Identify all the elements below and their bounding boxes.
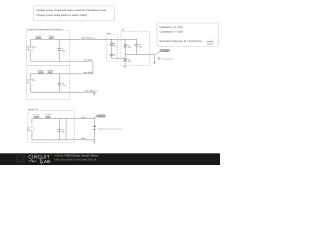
- wire: output stub + flag link: [155, 52, 160, 63]
- svg-text:Wire (Pickup +): Wire (Pickup +): [82, 37, 95, 40]
- resistor R6: [45, 113, 51, 118]
- voltage source V1 (coil EMF): [26, 45, 36, 51]
- ground (single coil): [93, 142, 96, 144]
- svg-text:L3 2.2H: L3 2.2H: [34, 113, 41, 116]
- wire: output tap horizontal: [125, 54, 154, 56]
- capacitor C1: [57, 39, 65, 61]
- capacitor C2: [58, 74, 66, 92]
- wire: vol vertical top: [124, 39, 126, 43]
- node junction output tap: [125, 54, 126, 55]
- potentiometer R4 (volume upper): [123, 44, 132, 49]
- inductor L1: [35, 34, 42, 39]
- svg-text:Change pickup component values: Change pickup component values based on …: [36, 9, 107, 12]
- svg-text:L1 4.4H: L1 4.4H: [35, 34, 42, 37]
- wire: loop1 left lower: [30, 51, 32, 62]
- svg-text:Wire +: Wire +: [81, 116, 87, 119]
- ground (volume): [124, 66, 127, 68]
- wire: loop2 left lower: [30, 84, 32, 92]
- wire: tone to volume horizontal: [112, 57, 126, 59]
- svg-text:250k: 250k: [128, 46, 132, 49]
- note box top-right: [157, 23, 219, 47]
- wire: loop2 bottom / Wire (Pickup -): [31, 92, 95, 93]
- svg-text:R1 8.6k: R1 8.6k: [49, 34, 55, 37]
- wire: mid join vertical: [92, 62, 94, 74]
- ground (output): [153, 63, 156, 65]
- svg-text:L2 4.4H: L2 4.4H: [38, 69, 45, 72]
- svg-text:110p: 110p: [62, 50, 66, 53]
- dashed group box B (humbucker coil 2): [27, 66, 70, 100]
- wire: vol vertical bottom to ground: [124, 62, 126, 66]
- node junction vol top: [125, 39, 126, 40]
- dashed group box Volume: [121, 29, 149, 66]
- inductor L2: [38, 69, 45, 74]
- wire: tone box vertical top: [111, 39, 113, 42]
- wire: loop3 bottom / Wire -: [32, 139, 94, 141]
- wire: loop3 left lower: [31, 131, 33, 140]
- svg-text:220p: 220p: [139, 45, 143, 48]
- node junction C4 top: [136, 39, 137, 40]
- footer logo waveform: [28, 160, 36, 163]
- voltage source V2 (coil EMF): [26, 79, 36, 85]
- net flag single coil +: [94, 115, 106, 119]
- svg-text:R6 6.4k: R6 6.4k: [45, 113, 51, 116]
- svg-text:Inductance = X (mH): Inductance = X (mH): [160, 26, 183, 29]
- svg-text:Wire (Pickup -): Wire (Pickup -): [85, 90, 98, 93]
- net flag Vout: [159, 49, 170, 52]
- inductor L3: [34, 113, 41, 118]
- potentiometer R3 (tone): [109, 42, 117, 48]
- jumper SW: [93, 126, 96, 130]
- node junction single coil -: [94, 139, 95, 140]
- wire: loop1 bottom / Wire (Mid) upper: [31, 61, 93, 63]
- wire: loop1 top / Wire (Pickup +): [31, 39, 126, 45]
- node junction tone tap: [111, 39, 112, 40]
- svg-text:Capacitance = Y (pF): Capacitance = Y (pF): [160, 31, 184, 34]
- svg-text:R2 8.6k: R2 8.6k: [47, 69, 53, 72]
- wire: loop3 top / Wire +: [32, 118, 94, 124]
- svg-text:Resonant Frequency, fo = 1/(2π: Resonant Frequency, fo = 1/(2π√(LC)): [160, 40, 203, 43]
- wire: loop3 right inner vertical: [65, 118, 67, 139]
- svg-text:C3: C3: [114, 54, 116, 57]
- resistor R1: [49, 34, 55, 39]
- svg-text:Wire (Mid): Wire (Mid): [84, 71, 93, 74]
- dashed group box Tone: [106, 32, 117, 61]
- wire: tone box vertical mid: [111, 46, 113, 54]
- wire: vol vertical mid: [124, 48, 126, 58]
- wire: vol top branch: [125, 38, 136, 40]
- wire: tone box vertical bottom: [111, 56, 113, 58]
- svg-text:95p: 95p: [62, 131, 65, 134]
- dashed group box A (humbucker coil 1): [27, 28, 70, 66]
- potentiometer R5 (volume lower): [123, 58, 132, 63]
- dashed group box single coil: [28, 108, 75, 142]
- svg-text:110p: 110p: [62, 84, 66, 87]
- svg-text:Wire -: Wire -: [81, 137, 86, 140]
- svg-text:250k: 250k: [128, 60, 132, 63]
- svg-text:Humbucker Pickup Model (from d: Humbucker Pickup Model (from datasheet): [27, 28, 63, 31]
- footer chip icon: [16, 155, 25, 163]
- capacitor C6: [57, 118, 64, 139]
- footer bar: [0, 153, 220, 165]
- svg-text:250k: 250k: [113, 45, 117, 48]
- wire: loop2 top / Wire (Mid) lower: [31, 74, 93, 79]
- svg-text:http://circuitlab.com/csawb248: http://circuitlab.com/csawb248cv9: [54, 157, 96, 161]
- node junction single coil +: [94, 118, 95, 119]
- footer logo LAB: [41, 159, 43, 163]
- note box top-left: [34, 6, 115, 21]
- flag note: to output jack: [158, 57, 173, 60]
- voltage source V3 (coil EMF): [27, 126, 35, 132]
- resistor R2: [47, 69, 53, 74]
- svg-text:Single Coil: Single Coil: [28, 108, 38, 111]
- svg-text:2π√LC: 2π√LC: [207, 42, 214, 45]
- wire: series link vertical: [93, 118, 95, 141]
- svg-text:Change pickup wiring based on: Change pickup wiring based on switch set…: [36, 14, 87, 17]
- svg-text:LAB: LAB: [41, 159, 50, 164]
- capacitor C3 (tone): [110, 54, 116, 57]
- ground (pickup -): [93, 94, 96, 96]
- svg-text:Wire (Mid): Wire (Mid): [84, 59, 93, 62]
- capacitor C4 (treble bleed): [135, 39, 143, 54]
